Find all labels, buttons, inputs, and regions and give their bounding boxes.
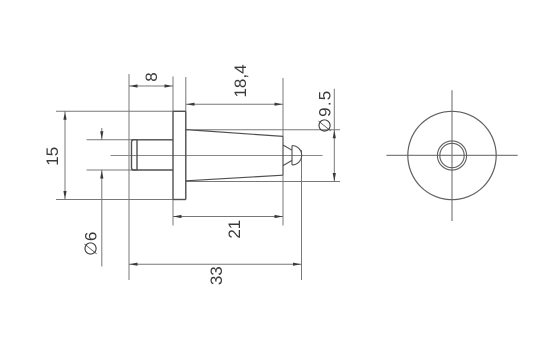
svg-text:8: 8: [142, 72, 161, 81]
extension line d9.5 bottom (y=180.5): [186, 181, 340, 183]
shaft end cap with chamfer: [132, 140, 138, 170]
extension line flange top (y=111.3, dim 15): [56, 110, 186, 112]
shaft outline (d6 cylinder): [132, 140, 174, 170]
extension line flange-right (x=186, dim 18.4): [185, 77, 187, 200]
svg-text:15: 15: [43, 147, 62, 166]
extension line left (x=129, dims 8/33): [128, 74, 130, 280]
right view crosshair vertical: [451, 90, 453, 221]
extension line shaft bottom (y=170, dim d6): [87, 169, 173, 171]
centerline left view: [111, 155, 323, 157]
right view ring inner: [440, 143, 464, 167]
right view ring outer: [437, 141, 466, 170]
svg-text:∅9.5: ∅9.5: [315, 90, 334, 133]
extension line flange-left (x=173, dims 8/21): [172, 77, 174, 226]
right view outer circle: [408, 111, 496, 199]
dimension line 18.4: [186, 103, 283, 105]
svg-text:18,4: 18,4: [231, 64, 250, 97]
dimension line 15: [64, 111, 66, 199]
extension line taper-right (x=283, dims 18.4/21): [282, 78, 284, 226]
flange outline: [173, 111, 186, 199]
svg-text:33: 33: [207, 266, 226, 285]
svg-text:∅6: ∅6: [82, 232, 101, 256]
dome tip: [292, 146, 302, 165]
right view crosshair horizontal: [386, 154, 517, 156]
dimension line d6 (arrows outside): [101, 128, 103, 140]
taper body outline: [186, 130, 283, 181]
extension line shaft top (y=139.8, dim d6): [87, 139, 173, 141]
extension line dome tip (x=301.5, dim 33): [301, 150, 303, 280]
svg-text:21: 21: [225, 220, 244, 239]
extension line d9.5 top (y=129.8): [186, 129, 340, 131]
dimension line 8: [129, 85, 173, 87]
tip cone lines: [283, 145, 292, 166]
dimension line 33: [129, 263, 302, 265]
extension line flange bottom (y=199.5, dim 15): [56, 199, 186, 201]
dimension line d9.5: [333, 89, 335, 182]
dimension line 21: [173, 216, 283, 218]
